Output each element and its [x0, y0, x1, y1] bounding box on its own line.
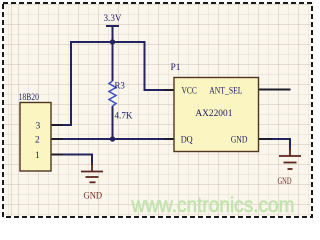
svg-text:2: 2 [35, 136, 40, 146]
svg-text:4.7K: 4.7K [115, 112, 133, 122]
svg-text:GND: GND [84, 192, 103, 202]
svg-text:ANT_SEL: ANT_SEL [209, 86, 242, 96]
svg-text:GND: GND [278, 177, 292, 187]
svg-text:R3: R3 [115, 82, 126, 92]
svg-text:18B20: 18B20 [19, 93, 40, 103]
svg-text:3: 3 [36, 122, 41, 132]
svg-text:www.cntronics.com: www.cntronics.com [131, 193, 295, 217]
svg-text:AX22001: AX22001 [195, 109, 232, 119]
svg-text:DQ: DQ [181, 135, 193, 145]
svg-text:VCC: VCC [182, 86, 197, 96]
svg-text:1: 1 [35, 151, 40, 161]
svg-text:GND: GND [231, 135, 248, 145]
svg-text:P1: P1 [171, 63, 181, 73]
svg-text:3.3V: 3.3V [104, 14, 122, 24]
